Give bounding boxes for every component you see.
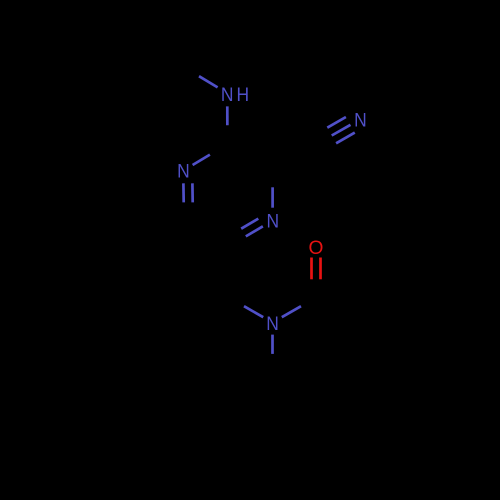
double bond N4=C5 inner line (N half) [241, 219, 258, 229]
bond N1-C2 (N half) [193, 155, 210, 165]
svg-text:N: N [354, 109, 367, 131]
bond N1'-C6'' (N half) [271, 335, 274, 354]
bond NH-C2 (N half) [226, 106, 229, 125]
svg-text:N: N [221, 84, 234, 106]
svg-text:N: N [177, 161, 190, 183]
double bond N4=C5 main line (N half) [246, 226, 263, 236]
double bond N1=C6 inner line (N half) [191, 183, 194, 202]
double bond N1=C6 main line (N half) [182, 183, 185, 202]
triple bond C7#N8 lower line (N half) [336, 133, 355, 144]
bond C3-N4 (N half) [271, 187, 274, 207]
double bond C2''=O right line (O half) [319, 258, 322, 280]
bond C9-N1' lactam (N half) [244, 306, 263, 317]
triple bond C7#N8 upper line (N half) [327, 117, 346, 128]
triple bond C7#N8 main line (N half) [332, 125, 351, 136]
double bond C2''=O left line (O half) [310, 258, 313, 280]
svg-text:N: N [266, 211, 279, 233]
svg-text:N: N [266, 313, 279, 335]
bond N1'-C2'' carbonyl side (N half) [282, 306, 301, 317]
svg-text:H: H [237, 84, 250, 106]
svg-text:O: O [309, 237, 324, 259]
bond CH3-NH (N half) [199, 76, 218, 87]
